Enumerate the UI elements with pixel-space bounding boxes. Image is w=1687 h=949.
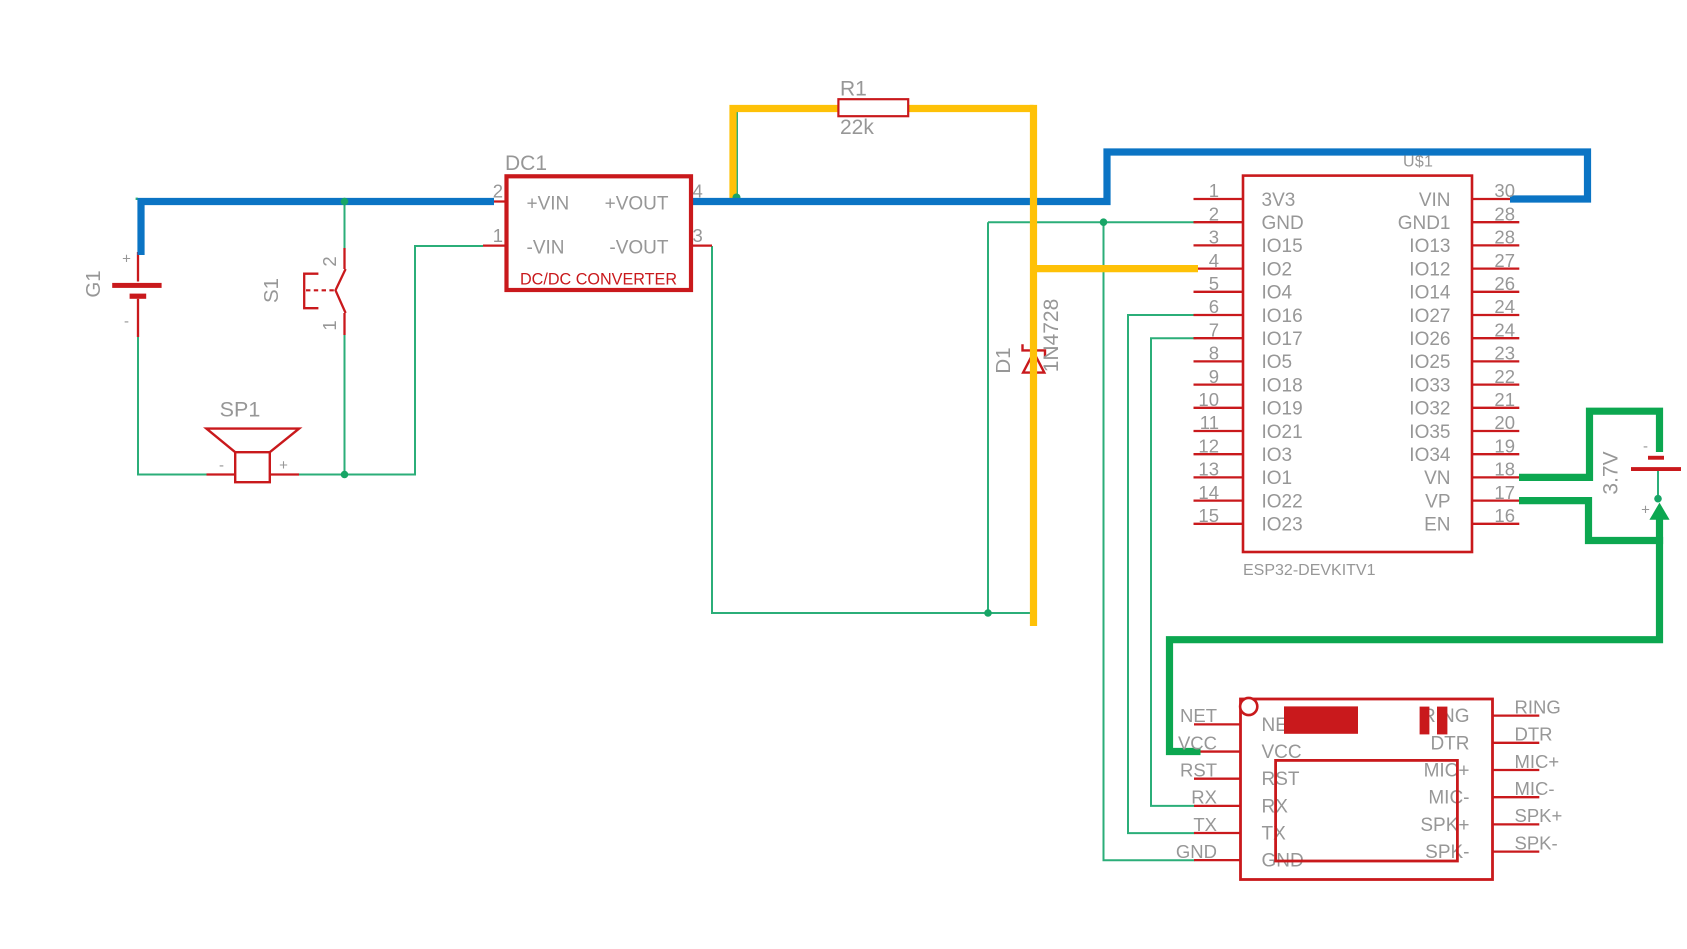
svg-text:9: 9 — [1209, 366, 1219, 387]
svg-text:+VOUT: +VOUT — [605, 193, 669, 214]
svg-text:22k: 22k — [840, 116, 874, 139]
svg-text:SPK-: SPK- — [1515, 832, 1558, 853]
svg-text:1: 1 — [319, 320, 340, 330]
svg-text:19: 19 — [1494, 435, 1515, 456]
svg-text:MIC+: MIC+ — [1424, 761, 1470, 782]
svg-text:4: 4 — [1209, 250, 1219, 271]
svg-text:2: 2 — [1209, 203, 1219, 224]
svg-text:IO12: IO12 — [1409, 259, 1450, 280]
svg-text:IO3: IO3 — [1262, 445, 1293, 466]
svg-text:MIC+: MIC+ — [1515, 751, 1560, 772]
svg-text:3.7V: 3.7V — [1600, 451, 1623, 494]
svg-text:R1: R1 — [840, 78, 867, 101]
svg-text:VIN: VIN — [1419, 190, 1451, 211]
svg-text:-: - — [1643, 438, 1648, 455]
svg-text:8: 8 — [1209, 343, 1219, 364]
svg-text:IO18: IO18 — [1262, 375, 1303, 396]
svg-text:IO2: IO2 — [1262, 259, 1293, 280]
svg-text:D1: D1 — [992, 347, 1015, 373]
svg-text:3: 3 — [693, 225, 703, 246]
svg-text:3: 3 — [1209, 227, 1219, 248]
svg-text:3V3: 3V3 — [1262, 190, 1296, 211]
svg-text:1: 1 — [493, 225, 503, 246]
svg-text:SPK+: SPK+ — [1420, 815, 1469, 836]
svg-text:28: 28 — [1494, 227, 1515, 248]
svg-text:MIC-: MIC- — [1515, 778, 1555, 799]
svg-text:VCC: VCC — [1178, 732, 1217, 753]
svg-text:IO21: IO21 — [1262, 422, 1303, 443]
svg-text:IO4: IO4 — [1262, 283, 1293, 304]
svg-text:+: + — [279, 457, 288, 474]
svg-text:24: 24 — [1494, 319, 1515, 340]
svg-text:14: 14 — [1198, 482, 1219, 503]
svg-text:EN: EN — [1424, 515, 1450, 536]
svg-text:IO27: IO27 — [1409, 306, 1450, 327]
svg-text:1N4728: 1N4728 — [1040, 299, 1063, 373]
svg-text:IO32: IO32 — [1409, 399, 1450, 420]
svg-text:GND: GND — [1176, 841, 1217, 862]
svg-text:IO14: IO14 — [1409, 283, 1451, 304]
svg-text:13: 13 — [1198, 459, 1219, 480]
svg-text:IO13: IO13 — [1409, 236, 1450, 257]
svg-text:18: 18 — [1494, 459, 1515, 480]
svg-text:TX: TX — [1262, 824, 1287, 845]
svg-text:G1: G1 — [82, 270, 105, 297]
svg-text:22: 22 — [1494, 366, 1515, 387]
svg-text:IO15: IO15 — [1262, 236, 1303, 257]
svg-text:DC1: DC1 — [505, 152, 547, 175]
svg-text:VN: VN — [1424, 468, 1450, 489]
svg-text:12: 12 — [1198, 435, 1219, 456]
svg-text:24: 24 — [1494, 296, 1515, 317]
svg-text:NET: NET — [1180, 705, 1217, 726]
svg-text:RX: RX — [1191, 787, 1217, 808]
svg-text:20: 20 — [1494, 412, 1515, 433]
svg-text:+VIN: +VIN — [527, 193, 570, 214]
svg-text:5: 5 — [1209, 273, 1219, 294]
svg-text:7: 7 — [1209, 319, 1219, 340]
svg-text:10: 10 — [1198, 389, 1219, 410]
svg-text:DTR: DTR — [1515, 724, 1553, 745]
svg-text:17: 17 — [1494, 482, 1515, 503]
svg-text:+: + — [122, 251, 131, 268]
svg-text:ESP32-DEVKITV1: ESP32-DEVKITV1 — [1243, 562, 1376, 579]
svg-text:11: 11 — [1200, 412, 1219, 433]
svg-text:GND1: GND1 — [1398, 213, 1451, 234]
svg-text:MIC-: MIC- — [1428, 788, 1469, 809]
svg-text:VP: VP — [1425, 491, 1450, 512]
svg-text:IO16: IO16 — [1262, 306, 1303, 327]
svg-text:1: 1 — [1209, 180, 1219, 201]
svg-text:IO23: IO23 — [1262, 515, 1303, 536]
svg-text:27: 27 — [1494, 250, 1515, 271]
svg-text:-VOUT: -VOUT — [609, 237, 669, 258]
svg-text:IO34: IO34 — [1409, 445, 1451, 466]
svg-text:28: 28 — [1494, 203, 1515, 224]
svg-text:SPK+: SPK+ — [1515, 805, 1563, 826]
svg-text:IO1: IO1 — [1262, 468, 1293, 489]
svg-text:6: 6 — [1209, 296, 1219, 317]
svg-text:-: - — [124, 313, 129, 330]
svg-text:23: 23 — [1494, 343, 1515, 364]
svg-text:RST: RST — [1262, 769, 1300, 790]
svg-text:RING: RING — [1515, 696, 1561, 717]
svg-text:SP1: SP1 — [220, 398, 261, 422]
svg-text:DC/DC CONVERTER: DC/DC CONVERTER — [520, 271, 677, 289]
svg-text:+: + — [1641, 502, 1650, 519]
svg-text:U$1: U$1 — [1403, 154, 1433, 171]
svg-text:15: 15 — [1198, 505, 1219, 526]
svg-text:16: 16 — [1494, 505, 1515, 526]
svg-text:TX: TX — [1193, 814, 1217, 835]
svg-text:-: - — [219, 457, 224, 474]
svg-text:IO22: IO22 — [1262, 491, 1303, 512]
svg-text:RST: RST — [1180, 760, 1217, 781]
svg-text:IO35: IO35 — [1409, 422, 1450, 443]
svg-text:26: 26 — [1494, 273, 1515, 294]
svg-text:IO25: IO25 — [1409, 352, 1450, 373]
svg-text:2: 2 — [493, 181, 503, 202]
svg-text:4: 4 — [693, 181, 703, 202]
svg-text:GND: GND — [1262, 213, 1304, 234]
svg-text:IO26: IO26 — [1409, 329, 1450, 350]
svg-text:IO19: IO19 — [1262, 399, 1303, 420]
svg-text:2: 2 — [319, 256, 340, 266]
svg-text:-VIN: -VIN — [527, 237, 565, 258]
svg-text:IO5: IO5 — [1262, 352, 1293, 373]
svg-text:S1: S1 — [260, 278, 283, 303]
svg-text:30: 30 — [1494, 180, 1515, 201]
svg-text:DTR: DTR — [1430, 733, 1469, 754]
svg-text:21: 21 — [1494, 389, 1515, 410]
svg-text:IO17: IO17 — [1262, 329, 1303, 350]
svg-text:IO33: IO33 — [1409, 375, 1450, 396]
